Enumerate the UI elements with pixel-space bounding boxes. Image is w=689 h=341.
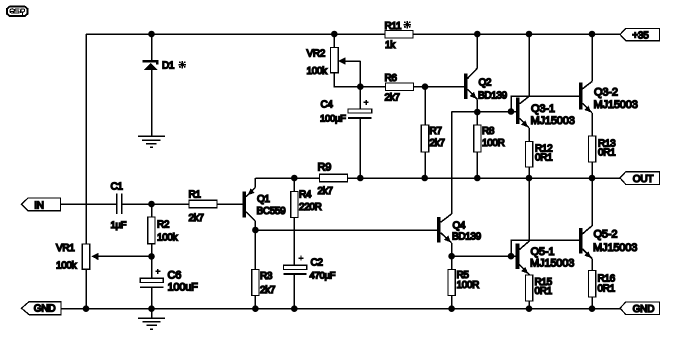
- wire C4 to OUT rail: [359, 119, 361, 178]
- label R7: [430, 126, 443, 137]
- wire bias node to R6: [360, 86, 386, 88]
- label R15: [535, 277, 553, 288]
- terminal GND left: [22, 302, 62, 315]
- terminal IN: [22, 198, 61, 211]
- wire R4 top: [293, 178, 295, 192]
- wire R2 to wiper node: [151, 244, 153, 257]
- svg-text:2k7: 2k7: [189, 213, 205, 224]
- svg-text:IN: IN: [34, 200, 44, 211]
- wire Q4 emitter to Q5-1 base: [452, 255, 516, 257]
- svg-text:BD139: BD139: [452, 232, 482, 243]
- svg-text:R7: R7: [430, 126, 443, 137]
- junction OUT rail / R8: [474, 175, 481, 182]
- transistor Q2: [464, 34, 477, 112]
- label R8: [482, 126, 495, 137]
- svg-text:VR2: VR2: [307, 49, 326, 60]
- junction Q5 base link: [508, 253, 515, 260]
- label R2: [157, 220, 170, 231]
- svg-text:R9: R9: [318, 161, 332, 173]
- label Q4: [453, 221, 466, 232]
- label C2: [311, 258, 324, 269]
- svg-text:2k7: 2k7: [430, 138, 446, 149]
- label 220R: [299, 202, 322, 213]
- svg-text:R11: R11: [385, 21, 402, 32]
- junction GND rail / C2: [291, 305, 298, 312]
- wire wiper node to C6: [151, 256, 153, 278]
- wire R4 to C2: [293, 218, 295, 266]
- svg-text:Q5-2: Q5-2: [594, 229, 618, 241]
- resistor R8: [474, 125, 481, 152]
- terminal +35: [620, 28, 659, 41]
- wire top rail left segment (bias feed): [86, 33, 385, 35]
- svg-text:Q1: Q1: [257, 194, 270, 205]
- svg-text:Q3-1: Q3-1: [531, 103, 555, 115]
- wire R12 to OUT rail: [528, 167, 530, 178]
- wire R8 top: [476, 112, 478, 125]
- wire R3 to GND rail: [254, 296, 256, 309]
- svg-text:C2: C2: [311, 258, 324, 269]
- svg-text:R4: R4: [299, 190, 312, 201]
- svg-text:OUT: OUT: [633, 174, 654, 185]
- wire R15 to GND rail: [528, 301, 530, 309]
- wire R7 top: [424, 87, 426, 125]
- wire Q4 collector: [451, 112, 453, 215]
- junction GND rail / R16: [589, 305, 596, 312]
- junction top rail / Q3-1 collector: [526, 31, 533, 38]
- label 2k7 (R3): [260, 285, 276, 296]
- junction OUT rail / R7: [421, 175, 428, 182]
- label MJ15003 (Q5-2): [593, 242, 637, 254]
- capacitor C1: [117, 193, 122, 213]
- svg-text:1µF: 1µF: [111, 220, 127, 231]
- svg-text:GND: GND: [34, 304, 56, 315]
- svg-text:MJ15003: MJ15003: [530, 257, 574, 269]
- svg-text:C6: C6: [168, 270, 182, 282]
- label 0R1 (R16): [598, 283, 616, 294]
- resistor R12: [525, 142, 532, 168]
- resistor R11: [385, 31, 413, 38]
- label 1k: [385, 40, 396, 51]
- label 1uF: [111, 220, 127, 231]
- label 0R1 (R15): [535, 286, 553, 297]
- svg-text:MJ15003: MJ15003: [594, 99, 638, 111]
- wire C1 to R1: [122, 203, 190, 205]
- label 2k7 (R1): [189, 213, 205, 224]
- junction drive node / Q2 emitter / R8: [474, 109, 481, 116]
- svg-text:0R1: 0R1: [535, 152, 553, 163]
- wire OUT rail left (Q1 emitter to R9): [255, 177, 319, 179]
- svg-text:220R: 220R: [299, 202, 322, 213]
- wire VR1 bottom to GND rail: [85, 269, 87, 308]
- resistor R15: [525, 275, 532, 301]
- svg-text:0R1: 0R1: [598, 283, 616, 294]
- wire VR2 top: [333, 34, 335, 47]
- svg-text:R1: R1: [189, 190, 202, 201]
- label 0R1 (R13): [598, 148, 616, 159]
- ground symbol (D1): [138, 136, 165, 147]
- svg-text:R2: R2: [157, 220, 170, 231]
- junction top rail / VR2: [331, 31, 338, 38]
- ground symbol (main): [138, 318, 165, 329]
- svg-text:1k: 1k: [385, 40, 396, 51]
- label MJ15003 (Q5-1): [530, 257, 574, 269]
- svg-text:100k: 100k: [307, 66, 329, 77]
- wire Q1 collector to Q4 base: [255, 229, 437, 231]
- svg-text:+35: +35: [632, 31, 649, 42]
- svg-text:Q4: Q4: [453, 221, 466, 232]
- label R16: [598, 273, 616, 284]
- label MJ15003 (Q3-2): [594, 99, 638, 111]
- wire R8 to OUT rail: [476, 152, 478, 178]
- wire OUT rail (R9 to OUT terminal): [348, 177, 621, 179]
- label R11: [385, 21, 402, 32]
- resistor R6: [386, 83, 414, 90]
- transistor Q5-2: [579, 178, 592, 271]
- label 100uF: [168, 282, 199, 294]
- asterisk for R11: [404, 21, 411, 28]
- label 2k7 (R6): [385, 92, 401, 103]
- svg-text:GND: GND: [633, 304, 655, 315]
- svg-text:Q2: Q2: [479, 77, 492, 88]
- junction Q4 emitter / R5: [448, 253, 455, 260]
- transistor Q3-2: [579, 34, 592, 136]
- capacitor C6: [140, 269, 163, 288]
- label VR2: [307, 49, 326, 60]
- svg-text:100µF: 100µF: [320, 113, 346, 124]
- wire C2 to GND rail: [293, 275, 295, 309]
- label C6: [168, 270, 182, 282]
- wire IN to C1: [61, 203, 117, 205]
- resistor R7: [421, 125, 428, 152]
- label Q2: [479, 77, 492, 88]
- svg-text:BC559: BC559: [257, 206, 287, 217]
- wire R16 to GND rail: [591, 297, 593, 309]
- svg-text:MJ15003: MJ15003: [531, 115, 575, 127]
- resistor R2: [148, 217, 155, 244]
- resistor R3: [252, 270, 259, 296]
- wire Q3 base link: [511, 96, 579, 111]
- junction GND rail / R3: [252, 305, 259, 312]
- potentiometer VR1: [82, 244, 90, 269]
- label R4: [299, 190, 312, 201]
- terminal OUT: [620, 172, 659, 185]
- transistor Q4: [437, 214, 451, 256]
- ESP logo: [7, 7, 27, 16]
- svg-text:R3: R3: [260, 271, 273, 282]
- svg-text:0R1: 0R1: [535, 286, 553, 297]
- svg-text:C1: C1: [111, 182, 124, 193]
- wire VR2 bottom: [334, 73, 360, 87]
- label MJ15003 (Q3-1): [531, 115, 575, 127]
- junction top rail / Q2 collector: [474, 31, 481, 38]
- junction GND rail / C6 / ground: [148, 305, 155, 312]
- wire R6 to Q2 base: [413, 86, 464, 88]
- wire C6 to GND rail: [151, 288, 153, 309]
- label BD139 (Q4): [452, 232, 482, 243]
- label 100k (VR2): [307, 66, 329, 77]
- transistor Q3-1: [516, 34, 529, 142]
- wire R1 to Q1 base: [217, 203, 242, 205]
- junction OUT rail / R4: [291, 175, 298, 182]
- label C1: [111, 182, 124, 193]
- junction Q1 collector / R3: [252, 227, 259, 234]
- resistor R5: [448, 270, 455, 296]
- resistor R13: [588, 136, 595, 162]
- svg-text:D1: D1: [162, 61, 175, 72]
- svg-text:VR1: VR1: [56, 243, 75, 254]
- label D1: [162, 61, 175, 72]
- wire VR2 wiper: [338, 57, 360, 86]
- label R9: [318, 161, 332, 173]
- label 100k (R2): [157, 233, 179, 244]
- wire D1 anode to ground: [151, 70, 153, 136]
- svg-text:0R1: 0R1: [598, 148, 616, 159]
- label Q5-2: [594, 229, 618, 241]
- label 100R (R8): [482, 138, 505, 149]
- svg-text:Q5-1: Q5-1: [531, 246, 555, 258]
- terminal GND right: [620, 302, 659, 315]
- wire drive node (Q4 collector to Q3-1 base): [452, 111, 516, 113]
- label BD139 (Q2): [478, 90, 508, 101]
- label BC559: [257, 206, 287, 217]
- junction top rail / Q3-2 collector: [589, 31, 596, 38]
- label VR1: [56, 243, 75, 254]
- label 100uF (C4): [320, 113, 346, 124]
- wire R5 top: [451, 256, 453, 269]
- wire GND rail: [61, 308, 621, 310]
- label Q5-1: [531, 246, 555, 258]
- label R5: [457, 270, 470, 281]
- label Q3-2: [594, 87, 618, 99]
- svg-text:100R: 100R: [457, 280, 480, 291]
- label 2k7 (R9): [318, 186, 334, 197]
- svg-text:2k7: 2k7: [318, 186, 334, 197]
- label R3: [260, 271, 273, 282]
- resistor R16: [588, 271, 595, 298]
- label 470uF: [310, 271, 336, 282]
- wire R5 to GND rail: [451, 296, 453, 309]
- label 2k7 (R7): [430, 138, 446, 149]
- resistor R9: [320, 174, 348, 181]
- junction R6/R7 node: [422, 83, 429, 90]
- wire VR1 wiper: [91, 253, 151, 260]
- svg-text:Q3-2: Q3-2: [594, 87, 618, 99]
- junction top rail / D1: [148, 31, 155, 38]
- wire D1 cathode: [151, 34, 153, 61]
- label 0R1 (R12): [535, 152, 553, 163]
- capacitor C2: [284, 256, 307, 275]
- svg-text:100R: 100R: [482, 138, 505, 149]
- svg-text:MJ15003: MJ15003: [593, 242, 637, 254]
- resistor R4: [291, 192, 298, 218]
- junction GND rail / VR1: [83, 305, 90, 312]
- svg-text:R6: R6: [385, 73, 398, 84]
- transistor Q5-1: [516, 178, 529, 275]
- capacitor C4: [348, 100, 372, 119]
- wire node A to R2: [151, 204, 153, 217]
- svg-text:2k7: 2k7: [385, 92, 401, 103]
- svg-text:C4: C4: [321, 99, 334, 110]
- label 100k (VR1): [56, 260, 78, 271]
- label R1: [189, 190, 202, 201]
- wire left rail from top to VR1: [85, 34, 87, 244]
- svg-text:470µF: 470µF: [310, 271, 336, 282]
- wire C4 top: [359, 87, 361, 109]
- potentiometer VR2: [331, 47, 339, 72]
- transistor Q1: [242, 178, 255, 230]
- wire top rail right segment (+35 rail): [413, 33, 620, 35]
- label 100R (R5): [457, 280, 480, 291]
- junction OUT rail / R13 / Q5-2 collector: [589, 175, 596, 182]
- junction OUT rail / C4: [357, 175, 364, 182]
- junction node A (C1/R1/R2): [148, 201, 155, 208]
- junction drive node / Q3 base link: [508, 108, 515, 115]
- wire R13 to OUT rail: [591, 162, 593, 178]
- junction GND rail / R15: [526, 305, 533, 312]
- wire R3 top: [254, 230, 256, 270]
- label Q3-1: [531, 103, 555, 115]
- junction GND rail / R5: [448, 305, 455, 312]
- junction bias node (VR2/C4/R6): [357, 83, 364, 90]
- wire chassis ground stem: [151, 309, 153, 318]
- label Q1: [257, 194, 270, 205]
- svg-text:BD139: BD139: [478, 90, 508, 101]
- label C4: [321, 99, 334, 110]
- label R13: [598, 138, 616, 149]
- resistor R1: [189, 200, 217, 207]
- label R12: [535, 143, 553, 154]
- svg-text:100k: 100k: [157, 233, 179, 244]
- junction wiper node (R2/VR1 wiper/C6): [148, 253, 155, 260]
- svg-text:100uF: 100uF: [168, 282, 199, 294]
- label R6: [385, 73, 398, 84]
- svg-text:R8: R8: [482, 126, 495, 137]
- wire R7 to OUT rail: [424, 152, 426, 178]
- svg-text:100k: 100k: [56, 260, 78, 271]
- asterisk for D1: [179, 61, 186, 68]
- wire Q5 base link: [511, 240, 579, 256]
- diode D1: [143, 60, 159, 70]
- svg-text:2k7: 2k7: [260, 285, 276, 296]
- junction OUT rail / R12 / Q5-1 collector: [526, 175, 533, 182]
